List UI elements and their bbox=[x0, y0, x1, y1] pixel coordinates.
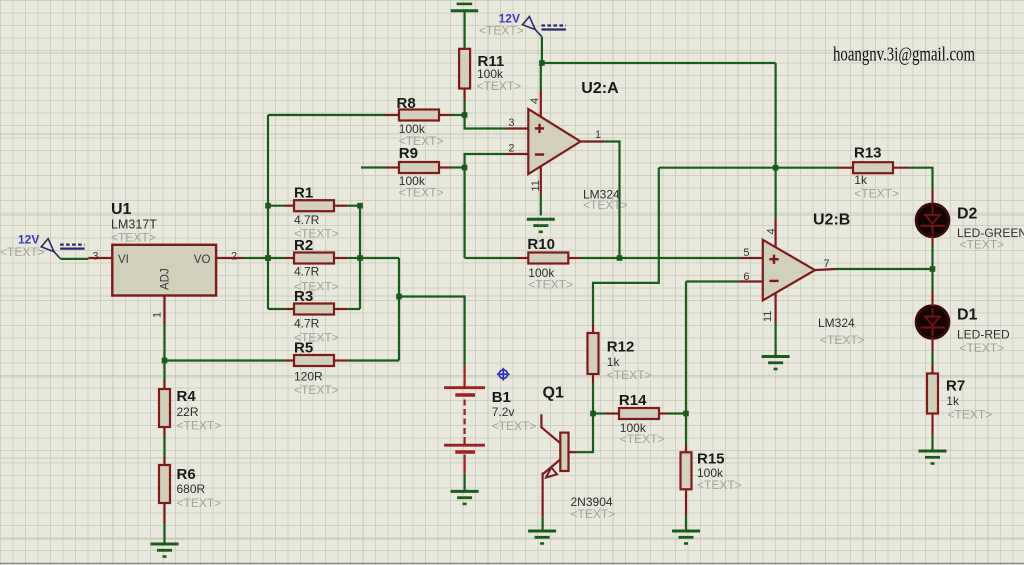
pin lead U2:B pin 6 bbox=[739, 280, 763, 282]
wire node B to U2:A pin 2 bbox=[465, 154, 506, 168]
pin lead U2:B pin 5 bbox=[739, 257, 763, 259]
pin lead D2 anode bbox=[931, 190, 933, 204]
wire R9 to node B bbox=[451, 166, 465, 168]
ground under R6 bbox=[151, 544, 179, 557]
svg-text:<TEXT>: <TEXT> bbox=[528, 278, 573, 292]
svg-text:B1: B1 bbox=[492, 389, 511, 406]
svg-text:VI: VI bbox=[118, 254, 129, 266]
wire node B down to R10 row bbox=[464, 168, 466, 259]
junction battery branch bbox=[396, 294, 402, 300]
svg-text:<TEXT>: <TEXT> bbox=[948, 408, 993, 422]
pin lead R13 left bbox=[838, 167, 853, 169]
pin lead R15 top bbox=[685, 445, 687, 452]
wire R11 to node R8 bbox=[464, 101, 466, 116]
wire R12 to R14 node bbox=[592, 383, 594, 414]
pin lead R3 right bbox=[334, 308, 348, 310]
svg-text:<TEXT>: <TEXT> bbox=[571, 507, 616, 521]
pin lead R5 left bbox=[285, 359, 294, 361]
wire R15 to ground bbox=[685, 515, 687, 530]
wire right rail vertical bbox=[359, 206, 361, 309]
svg-text:<TEXT>: <TEXT> bbox=[399, 186, 444, 200]
svg-text:<TEXT>: <TEXT> bbox=[620, 432, 665, 446]
pin lead R2 right bbox=[334, 257, 348, 259]
svg-text:1k: 1k bbox=[854, 173, 868, 187]
resistor R6 bbox=[159, 465, 170, 503]
wire R8 to node A bbox=[451, 114, 465, 116]
svg-text:4: 4 bbox=[529, 98, 541, 104]
pin lead R8 left bbox=[386, 114, 400, 116]
wire R9 left stub bbox=[361, 166, 386, 168]
resistor R13 bbox=[853, 162, 893, 173]
svg-text:<TEXT>: <TEXT> bbox=[960, 341, 1005, 355]
svg-text:R8: R8 bbox=[397, 95, 416, 112]
wire node to R15 bbox=[685, 414, 687, 446]
pin lead U1 ADJ bbox=[163, 296, 165, 325]
svg-text:D2: D2 bbox=[957, 206, 978, 223]
wire pin 7 to LED node bbox=[836, 268, 933, 270]
svg-text:7: 7 bbox=[824, 258, 830, 270]
pin lead R10 left bbox=[516, 257, 528, 259]
svg-text:R13: R13 bbox=[854, 145, 882, 162]
resistor R10 bbox=[528, 253, 568, 264]
wire to battery B1 positive bbox=[399, 297, 465, 366]
wire rail to R2 bbox=[268, 257, 285, 259]
svg-text:R7: R7 bbox=[946, 378, 965, 395]
junction 12V rail / U2:A pin4 bbox=[539, 60, 545, 66]
wire pin 11 to ground bbox=[540, 195, 542, 216]
svg-text:R1: R1 bbox=[294, 185, 313, 202]
wire pin 6 down to R14/R15 bbox=[685, 282, 687, 414]
junction 12V rail / R13 net bbox=[773, 165, 779, 171]
junction R2 right bbox=[357, 255, 363, 261]
pin lead U2:A pin 3 bbox=[506, 127, 528, 129]
junction R2 left bbox=[265, 255, 271, 261]
svg-text:<TEXT>: <TEXT> bbox=[854, 187, 899, 201]
svg-text:LED-RED: LED-RED bbox=[957, 328, 1010, 342]
svg-text:1: 1 bbox=[151, 312, 163, 318]
wire left rail to R8 bbox=[268, 114, 386, 116]
power terminal 12V (top) bbox=[523, 17, 566, 37]
svg-text:<TEXT>: <TEXT> bbox=[697, 478, 742, 492]
wire D1 to R7 bbox=[931, 351, 933, 365]
ground under Q1 bbox=[528, 531, 556, 544]
wire pin 11 to ground bbox=[774, 323, 776, 356]
wire 12V terminal down bbox=[541, 37, 543, 63]
svg-text:R15: R15 bbox=[697, 451, 725, 468]
ground under R7 bbox=[919, 451, 947, 464]
svg-text:R5: R5 bbox=[294, 340, 313, 357]
wire R1 to right rail bbox=[348, 205, 360, 207]
pin lead U1 VI bbox=[88, 257, 112, 259]
wire R14 to R15 node bbox=[668, 412, 686, 414]
pin lead R3 left bbox=[285, 308, 294, 310]
wire left terminal to U1 bbox=[61, 258, 89, 260]
battery B1 bbox=[444, 365, 485, 473]
wire R2 right to battery rail bbox=[360, 257, 399, 259]
svg-text:<TEXT>: <TEXT> bbox=[294, 383, 339, 397]
pin lead R7 bottom bbox=[931, 414, 933, 435]
pin lead U2:B pin 4 bbox=[774, 219, 776, 248]
pin lead R1 left bbox=[285, 205, 294, 207]
svg-text:R12: R12 bbox=[607, 339, 635, 356]
pin lead R1 right bbox=[334, 205, 348, 207]
junction ADJ/R5/R4 bbox=[162, 358, 168, 364]
resistor R12 bbox=[588, 333, 599, 374]
svg-text:U1: U1 bbox=[111, 201, 132, 218]
pin lead R6 bottom bbox=[163, 503, 165, 524]
pin lead U2:B output pin 7 bbox=[814, 269, 836, 270]
wire to R10 left bbox=[465, 257, 516, 259]
svg-text:<TEXT>: <TEXT> bbox=[960, 238, 1005, 252]
wire R3 to right rail bbox=[348, 308, 360, 310]
svg-text:R2: R2 bbox=[294, 237, 313, 254]
pin lead R4 bottom bbox=[163, 427, 165, 436]
pin lead R9 right bbox=[439, 166, 451, 168]
svg-text:<TEXT>: <TEXT> bbox=[583, 198, 628, 212]
svg-text:4.7R: 4.7R bbox=[294, 265, 320, 279]
svg-text:<TEXT>: <TEXT> bbox=[479, 24, 524, 38]
pin lead U2:A pin 4 bbox=[540, 91, 542, 118]
pin lead R7 top bbox=[931, 365, 933, 374]
wire D2 to node bbox=[931, 246, 933, 269]
wire R6 to ground bbox=[163, 524, 165, 544]
wire rail to R3 bbox=[268, 308, 285, 310]
pin lead R14 right bbox=[659, 412, 668, 414]
LED D2 bbox=[916, 204, 949, 237]
svg-text:2: 2 bbox=[508, 143, 514, 155]
junction R1 right bbox=[357, 203, 363, 209]
pin lead U2:A output pin 1 bbox=[581, 140, 605, 142]
pin lead R4 top bbox=[163, 381, 165, 390]
wire node to R4 bbox=[163, 361, 165, 381]
pin lead R8 right bbox=[439, 114, 451, 116]
wire R5 right to battery rail bbox=[348, 359, 399, 361]
wire ADJ down bbox=[163, 324, 165, 361]
svg-text:<TEXT>: <TEXT> bbox=[477, 79, 522, 93]
svg-text:Q1: Q1 bbox=[543, 385, 564, 402]
ground under B1 bbox=[451, 491, 479, 504]
svg-text:680R: 680R bbox=[177, 482, 206, 496]
svg-text:U2:A: U2:A bbox=[581, 80, 619, 97]
svg-text:22R: 22R bbox=[177, 405, 199, 419]
wire ADJ node to R5 bbox=[165, 359, 286, 361]
svg-text:ADJ: ADJ bbox=[160, 268, 172, 290]
svg-text:<TEXT>: <TEXT> bbox=[607, 368, 652, 382]
svg-text:<TEXT>: <TEXT> bbox=[492, 419, 537, 433]
wire 12V rail down to R13 net bbox=[774, 63, 776, 168]
ground U2:A pin 11 bbox=[527, 219, 555, 232]
wire rail to R1 bbox=[268, 205, 285, 207]
svg-text:11: 11 bbox=[762, 311, 774, 322]
svg-text:2: 2 bbox=[231, 251, 237, 263]
wire battery rail vertical bbox=[398, 258, 400, 361]
wire 12V rail horizontal bbox=[542, 62, 776, 64]
wire node to D1 bbox=[931, 269, 933, 292]
pin lead R5 right bbox=[334, 359, 348, 361]
resistor R1 bbox=[294, 200, 334, 211]
junction R1 left bbox=[265, 203, 271, 209]
transistor Q1 2N3904 bbox=[541, 414, 568, 518]
svg-text:R14: R14 bbox=[619, 392, 647, 409]
pin lead R11 bottom bbox=[464, 89, 466, 101]
svg-text:hoangnv.3i@gmail.com: hoangnv.3i@gmail.com bbox=[833, 45, 975, 66]
bottom window edge bbox=[0, 563, 1024, 565]
svg-text:R6: R6 bbox=[177, 466, 196, 483]
resistor R8 bbox=[399, 110, 439, 121]
pin lead R2 left bbox=[285, 257, 294, 259]
resistor R2 bbox=[294, 253, 334, 264]
svg-text:LM324: LM324 bbox=[818, 316, 855, 330]
svg-text:<TEXT>: <TEXT> bbox=[177, 496, 222, 510]
pin lead R13 right bbox=[893, 167, 910, 169]
wire R13 net to pin 4 bbox=[774, 168, 776, 219]
svg-text:R4: R4 bbox=[177, 388, 197, 405]
svg-text:U2:B: U2:B bbox=[813, 212, 850, 229]
pin lead Q1 base bbox=[569, 451, 577, 453]
svg-text:LM317T: LM317T bbox=[111, 218, 157, 232]
junction U2:A out / R10-pin5 net bbox=[617, 255, 623, 261]
wire B1 to ground bbox=[464, 474, 466, 490]
wire node A to U2:A pin 3 bbox=[465, 115, 506, 129]
svg-text:120R: 120R bbox=[294, 370, 323, 384]
ground U2:B pin 11 bbox=[762, 357, 790, 370]
power bar symbol top bbox=[451, 4, 478, 11]
wire Q1 base to R12/R14 node bbox=[576, 414, 593, 453]
wire R4 to R6 bbox=[163, 436, 165, 457]
resistor R4 bbox=[159, 389, 170, 427]
pin lead D1 cathode bbox=[931, 338, 933, 351]
junction node R9/pin2/battery net bbox=[462, 165, 468, 171]
op-amp U2:B bbox=[763, 240, 815, 301]
svg-text:R9: R9 bbox=[399, 145, 418, 162]
pin lead U2:B pin 11 bbox=[774, 293, 776, 323]
regulator U1 LM317T body bbox=[112, 245, 216, 296]
wire node to R14 bbox=[593, 412, 606, 414]
resistor R11 bbox=[459, 49, 470, 89]
op-amp U2:A bbox=[528, 109, 580, 174]
junction R2 left / VO bbox=[265, 255, 271, 261]
pin lead R14 left bbox=[606, 412, 619, 414]
junction R12/R14/base bbox=[590, 411, 596, 417]
wire R7 to ground bbox=[931, 435, 933, 450]
wire U2:A output down to pin5 net bbox=[605, 142, 620, 259]
pin lead R12 top bbox=[592, 324, 594, 333]
resistor R3 bbox=[294, 304, 334, 315]
wire power bar to R11 bbox=[464, 11, 466, 48]
svg-text:VO: VO bbox=[194, 254, 211, 266]
svg-text:3: 3 bbox=[508, 117, 514, 129]
LED D1 bbox=[916, 306, 949, 339]
svg-text:1: 1 bbox=[595, 129, 601, 141]
svg-text:<TEXT>: <TEXT> bbox=[111, 231, 156, 245]
svg-text:R10: R10 bbox=[527, 236, 555, 253]
junction node R11/R8/pin3 bbox=[462, 112, 468, 118]
wire R10 to U2:B pin 5 bbox=[581, 257, 740, 259]
svg-text:7.2v: 7.2v bbox=[492, 405, 515, 419]
resistor R15 bbox=[681, 452, 692, 489]
svg-text:R3: R3 bbox=[294, 288, 313, 305]
resistor R7 bbox=[927, 374, 938, 414]
pin lead U2:A pin 2 bbox=[506, 153, 528, 155]
svg-text:4.7R: 4.7R bbox=[294, 317, 320, 331]
wire 12V to pin 4 bbox=[540, 63, 542, 91]
ground under R15 bbox=[672, 531, 700, 544]
svg-text:3: 3 bbox=[92, 251, 98, 263]
pin lead D2 cathode bbox=[931, 236, 933, 246]
wire VO to left rail bbox=[243, 257, 268, 259]
pin lead R10 right bbox=[568, 257, 580, 259]
junction R14/R15/pin6 bbox=[683, 411, 689, 417]
pin lead U1 VO bbox=[216, 257, 243, 259]
svg-text:<TEXT>: <TEXT> bbox=[177, 419, 222, 433]
junction D2/D1/pin7 bbox=[930, 266, 936, 272]
wire R13 net horizontal bbox=[659, 167, 838, 169]
wire R13 to D2 bbox=[910, 168, 932, 190]
resistor R9 bbox=[399, 162, 439, 173]
pin lead R6 top bbox=[163, 457, 165, 466]
wire R2 to right rail bbox=[348, 257, 360, 259]
svg-text:5: 5 bbox=[743, 247, 749, 259]
resistor R5 bbox=[294, 355, 334, 366]
wire R13 net down to R12 bbox=[593, 168, 659, 324]
svg-text:<TEXT>: <TEXT> bbox=[820, 333, 865, 347]
svg-text:<TEXT>: <TEXT> bbox=[0, 245, 45, 259]
wire pin 6 horizontal bbox=[686, 280, 739, 282]
pin lead D1 anode bbox=[931, 292, 933, 306]
pin lead R9 left bbox=[386, 166, 400, 168]
pin lead R12 bottom bbox=[592, 374, 594, 383]
power terminal 12V (left) bbox=[41, 239, 84, 259]
pin lead R15 bottom bbox=[685, 489, 687, 515]
pin lead U2:A pin 11 bbox=[540, 166, 542, 195]
svg-text:1k: 1k bbox=[607, 355, 621, 369]
svg-text:1k: 1k bbox=[946, 394, 960, 408]
origin crosshair marker bbox=[497, 368, 510, 381]
svg-text:D1: D1 bbox=[957, 307, 978, 324]
svg-text:4.7R: 4.7R bbox=[294, 213, 320, 227]
wire Q1 emitter to ground bbox=[541, 518, 543, 530]
resistor R14 bbox=[619, 408, 659, 419]
wire left rail vertical bbox=[267, 115, 269, 309]
